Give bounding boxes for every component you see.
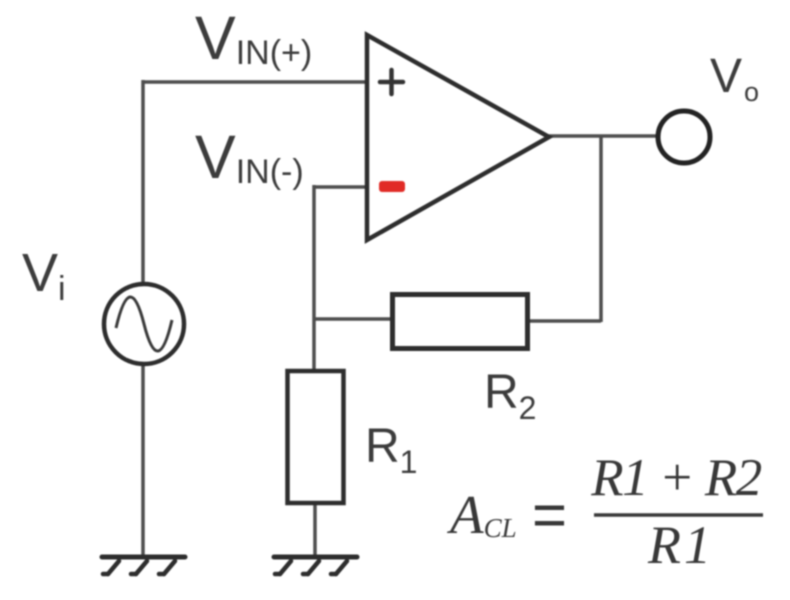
svg-text:R1: R1 xyxy=(647,515,714,575)
svg-text:ACL: ACL xyxy=(446,484,517,545)
svg-text:VIN(-): VIN(-) xyxy=(195,123,304,191)
svg-text:VIN(+): VIN(+) xyxy=(195,4,312,72)
svg-text:Vo: Vo xyxy=(710,50,759,107)
svg-text:R1: R1 xyxy=(365,420,417,480)
svg-text:Vi: Vi xyxy=(22,243,66,308)
svg-text:R1 + R2: R1 + R2 xyxy=(590,449,762,507)
svg-text:R2: R2 xyxy=(484,366,536,426)
svg-text:=: = xyxy=(532,481,567,550)
